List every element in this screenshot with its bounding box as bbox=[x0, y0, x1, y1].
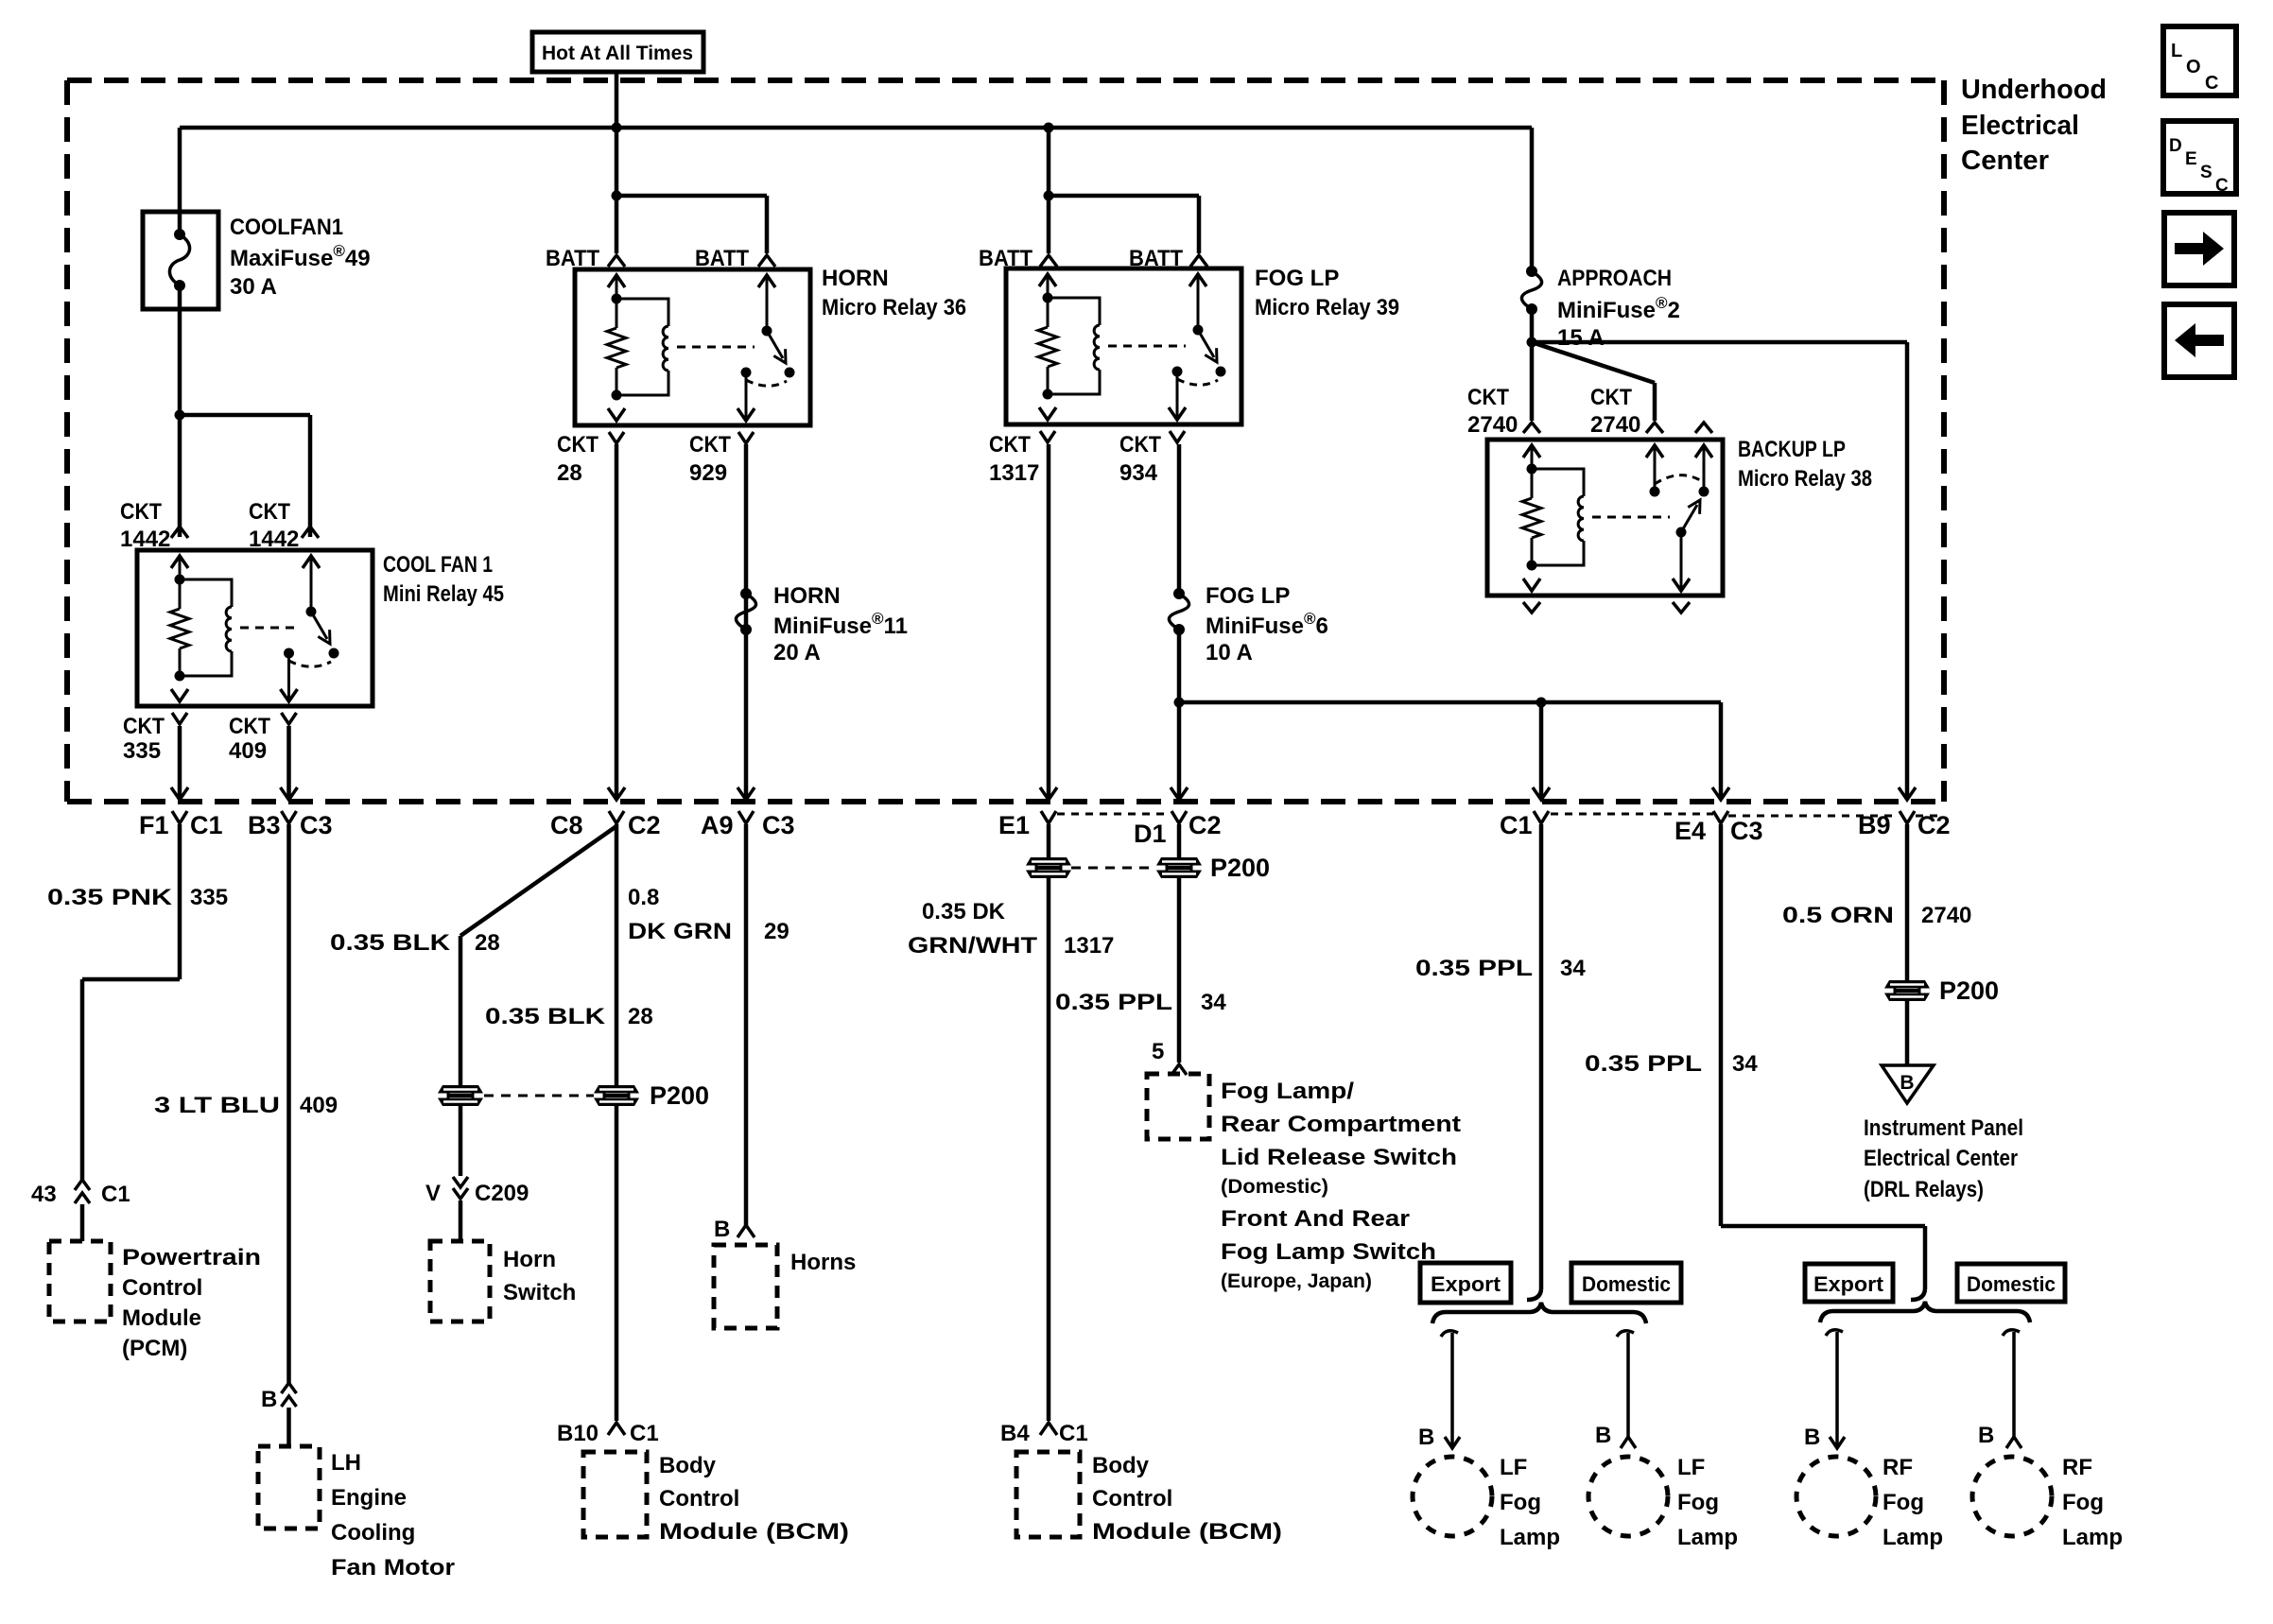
svg-text:Engine: Engine bbox=[331, 1485, 407, 1511]
svg-text:Micro Relay 39: Micro Relay 39 bbox=[1255, 295, 1399, 320]
svg-text:3 LT BLU: 3 LT BLU bbox=[154, 1093, 280, 1118]
svg-text:Instrument Panel: Instrument Panel bbox=[1864, 1115, 2023, 1141]
svg-text:0.35 PPL: 0.35 PPL bbox=[1415, 956, 1533, 981]
svg-text:E4: E4 bbox=[1674, 817, 1706, 845]
svg-text:Underhood: Underhood bbox=[1961, 75, 2107, 105]
svg-text:Rear Compartment: Rear Compartment bbox=[1221, 1112, 1461, 1137]
svg-text:Cooling: Cooling bbox=[331, 1520, 415, 1546]
svg-text:(Domestic): (Domestic) bbox=[1221, 1176, 1328, 1198]
svg-text:P200: P200 bbox=[650, 1081, 709, 1110]
svg-text:Center: Center bbox=[1961, 146, 2049, 176]
svg-text:15 A: 15 A bbox=[1557, 325, 1605, 351]
svg-text:B: B bbox=[1900, 1072, 1914, 1094]
svg-text:0.35 DK: 0.35 DK bbox=[922, 899, 1006, 924]
svg-text:335: 335 bbox=[123, 738, 161, 764]
svg-text:Micro Relay 36: Micro Relay 36 bbox=[822, 295, 966, 320]
svg-text:Lamp: Lamp bbox=[1677, 1525, 1738, 1550]
svg-text:1317: 1317 bbox=[1064, 933, 1114, 959]
svg-text:F1: F1 bbox=[139, 811, 169, 839]
svg-text:V: V bbox=[425, 1181, 441, 1206]
svg-text:LF: LF bbox=[1677, 1455, 1705, 1480]
svg-text:Switch: Switch bbox=[503, 1280, 576, 1305]
svg-text:C: C bbox=[2205, 73, 2218, 94]
svg-text:B10: B10 bbox=[557, 1421, 599, 1446]
svg-text:Electrical Center: Electrical Center bbox=[1864, 1146, 2018, 1171]
svg-text:20 A: 20 A bbox=[773, 640, 821, 665]
svg-text:0.35 BLK: 0.35 BLK bbox=[330, 930, 451, 956]
svg-text:L: L bbox=[2171, 41, 2182, 61]
svg-text:Front And Rear: Front And Rear bbox=[1221, 1206, 1410, 1232]
svg-text:CKT: CKT bbox=[557, 432, 599, 458]
svg-text:929: 929 bbox=[689, 460, 727, 486]
svg-text:C3: C3 bbox=[300, 811, 333, 839]
svg-text:O: O bbox=[2186, 57, 2201, 78]
svg-text:Fog: Fog bbox=[2062, 1490, 2104, 1515]
svg-text:BACKUP LP: BACKUP LP bbox=[1738, 437, 1846, 462]
svg-text:B: B bbox=[714, 1217, 730, 1242]
svg-text:Module (BCM): Module (BCM) bbox=[1092, 1519, 1282, 1545]
svg-text:30 A: 30 A bbox=[230, 274, 277, 300]
svg-text:E1: E1 bbox=[998, 811, 1030, 839]
svg-text:28: 28 bbox=[628, 1004, 653, 1029]
svg-text:Export: Export bbox=[1431, 1272, 1501, 1296]
svg-text:2740: 2740 bbox=[1921, 903, 1971, 928]
svg-text:335: 335 bbox=[190, 885, 228, 910]
svg-text:C: C bbox=[2215, 176, 2229, 196]
svg-text:0.35 PPL: 0.35 PPL bbox=[1585, 1051, 1702, 1077]
svg-text:Lamp: Lamp bbox=[1500, 1525, 1560, 1550]
svg-text:Lamp: Lamp bbox=[2062, 1525, 2123, 1550]
svg-text:CKT: CKT bbox=[689, 432, 731, 458]
svg-text:LF: LF bbox=[1500, 1455, 1527, 1480]
svg-text:28: 28 bbox=[475, 930, 500, 956]
svg-text:Domestic: Domestic bbox=[1967, 1272, 2056, 1296]
svg-text:Fog Lamp Switch: Fog Lamp Switch bbox=[1221, 1239, 1436, 1265]
svg-text:CKT: CKT bbox=[229, 714, 270, 739]
svg-text:CKT: CKT bbox=[1590, 385, 1632, 410]
svg-text:(DRL Relays): (DRL Relays) bbox=[1864, 1177, 1984, 1202]
svg-text:B: B bbox=[1804, 1425, 1820, 1450]
svg-text:Export: Export bbox=[1813, 1272, 1884, 1296]
svg-text:D1: D1 bbox=[1134, 820, 1167, 848]
svg-text:C1: C1 bbox=[101, 1182, 130, 1207]
svg-text:0.8: 0.8 bbox=[628, 885, 659, 910]
svg-text:34: 34 bbox=[1201, 990, 1226, 1015]
svg-text:C1: C1 bbox=[1500, 811, 1533, 839]
svg-text:DK GRN: DK GRN bbox=[628, 919, 732, 944]
svg-text:2740: 2740 bbox=[1590, 412, 1640, 438]
svg-text:28: 28 bbox=[557, 460, 582, 486]
svg-text:COOL FAN 1: COOL FAN 1 bbox=[383, 552, 493, 578]
svg-text:Domestic: Domestic bbox=[1582, 1272, 1671, 1296]
svg-text:C8: C8 bbox=[550, 811, 583, 839]
svg-text:FOG LP: FOG LP bbox=[1255, 266, 1339, 291]
svg-text:MaxiFuse®49: MaxiFuse®49 bbox=[230, 242, 371, 271]
svg-text:MiniFuse®11: MiniFuse®11 bbox=[773, 610, 908, 639]
svg-text:C2: C2 bbox=[628, 811, 661, 839]
svg-text:COOLFAN1: COOLFAN1 bbox=[230, 215, 343, 240]
svg-text:CKT: CKT bbox=[1119, 432, 1161, 458]
svg-text:Module: Module bbox=[122, 1305, 201, 1331]
svg-text:(Europe, Japan): (Europe, Japan) bbox=[1221, 1270, 1372, 1292]
svg-text:Powertrain: Powertrain bbox=[122, 1245, 261, 1270]
svg-text:0.35 PPL: 0.35 PPL bbox=[1055, 990, 1172, 1015]
svg-text:CKT: CKT bbox=[1467, 385, 1509, 410]
svg-text:D: D bbox=[2169, 136, 2182, 156]
svg-text:5: 5 bbox=[1152, 1039, 1164, 1064]
svg-text:Fog Lamp/: Fog Lamp/ bbox=[1221, 1079, 1354, 1104]
svg-text:GRN/WHT: GRN/WHT bbox=[908, 933, 1037, 959]
svg-text:Micro Relay 38: Micro Relay 38 bbox=[1738, 466, 1872, 492]
svg-text:C1: C1 bbox=[190, 811, 223, 839]
svg-text:P200: P200 bbox=[1939, 976, 1999, 1005]
svg-text:C3: C3 bbox=[1730, 817, 1763, 845]
svg-text:CKT: CKT bbox=[120, 499, 162, 525]
svg-text:CKT: CKT bbox=[123, 714, 165, 739]
svg-text:Body: Body bbox=[659, 1453, 717, 1478]
svg-text:A9: A9 bbox=[701, 811, 734, 839]
svg-text:Module (BCM): Module (BCM) bbox=[659, 1519, 849, 1545]
svg-text:Hot At All Times: Hot At All Times bbox=[542, 43, 693, 64]
svg-text:409: 409 bbox=[229, 738, 267, 764]
svg-text:C3: C3 bbox=[762, 811, 795, 839]
svg-text:FOG LP: FOG LP bbox=[1206, 583, 1290, 609]
svg-text:409: 409 bbox=[300, 1093, 338, 1118]
svg-text:Control: Control bbox=[1092, 1486, 1172, 1512]
svg-text:43: 43 bbox=[31, 1182, 57, 1207]
svg-text:APPROACH: APPROACH bbox=[1557, 266, 1672, 291]
svg-text:CKT: CKT bbox=[249, 499, 290, 525]
svg-text:B: B bbox=[261, 1387, 277, 1412]
svg-text:0.35 PNK: 0.35 PNK bbox=[47, 885, 173, 910]
svg-text:2740: 2740 bbox=[1467, 412, 1518, 438]
svg-text:Control: Control bbox=[122, 1275, 202, 1301]
svg-text:C2: C2 bbox=[1189, 811, 1222, 839]
svg-text:Control: Control bbox=[659, 1486, 739, 1512]
svg-text:Horn: Horn bbox=[503, 1247, 556, 1272]
svg-text:S: S bbox=[2200, 163, 2212, 182]
svg-text:29: 29 bbox=[764, 919, 789, 944]
svg-text:34: 34 bbox=[1732, 1051, 1758, 1077]
svg-text:0.35 BLK: 0.35 BLK bbox=[485, 1004, 606, 1029]
svg-text:Fog: Fog bbox=[1883, 1490, 1924, 1515]
svg-text:HORN: HORN bbox=[773, 583, 841, 609]
svg-text:934: 934 bbox=[1119, 460, 1158, 486]
svg-text:C1: C1 bbox=[1059, 1421, 1088, 1446]
svg-text:RF: RF bbox=[1883, 1455, 1913, 1480]
svg-text:P200: P200 bbox=[1210, 854, 1270, 882]
svg-text:B: B bbox=[1418, 1425, 1434, 1450]
svg-text:Fan Motor: Fan Motor bbox=[331, 1555, 455, 1581]
svg-text:Horns: Horns bbox=[790, 1250, 856, 1275]
svg-text:HORN: HORN bbox=[822, 266, 889, 291]
svg-text:Fog: Fog bbox=[1677, 1490, 1719, 1515]
svg-text:34: 34 bbox=[1560, 956, 1586, 981]
svg-text:CKT: CKT bbox=[989, 432, 1031, 458]
svg-text:Body: Body bbox=[1092, 1453, 1150, 1478]
svg-text:E: E bbox=[2185, 149, 2197, 169]
svg-text:(PCM): (PCM) bbox=[122, 1336, 187, 1361]
svg-text:Mini Relay 45: Mini Relay 45 bbox=[383, 581, 504, 607]
svg-text:Fog: Fog bbox=[1500, 1490, 1541, 1515]
svg-text:B4: B4 bbox=[1000, 1421, 1030, 1446]
svg-text:10 A: 10 A bbox=[1206, 640, 1253, 665]
svg-text:Electrical: Electrical bbox=[1961, 111, 2079, 141]
svg-text:LH: LH bbox=[331, 1450, 361, 1476]
svg-text:0.5 ORN: 0.5 ORN bbox=[1782, 903, 1894, 928]
svg-text:B: B bbox=[1978, 1423, 1994, 1448]
svg-text:B3: B3 bbox=[248, 811, 281, 839]
svg-text:1317: 1317 bbox=[989, 460, 1039, 486]
svg-text:Lid Release Switch: Lid Release Switch bbox=[1221, 1145, 1457, 1170]
svg-text:C209: C209 bbox=[475, 1181, 529, 1206]
svg-text:C1: C1 bbox=[630, 1421, 659, 1446]
svg-text:B: B bbox=[1595, 1423, 1611, 1448]
svg-text:RF: RF bbox=[2062, 1455, 2092, 1480]
svg-text:Lamp: Lamp bbox=[1883, 1525, 1943, 1550]
